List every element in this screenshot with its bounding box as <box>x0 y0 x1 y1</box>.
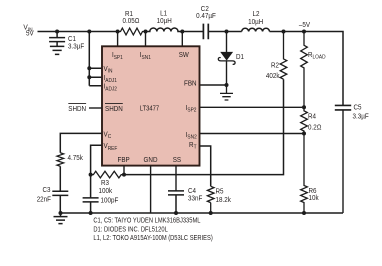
capacitor C2 <box>196 4 216 39</box>
wire VREF <box>89 145 102 176</box>
svg-text:22nF: 22nF <box>37 195 52 204</box>
svg-text:100k: 100k <box>99 186 113 195</box>
svg-text:R4: R4 <box>308 111 316 120</box>
svg-text:L1, L2: TOKO A915AY-100M (D53L: L1, L2: TOKO A915AY-100M (D53LC SERIES) <box>93 233 212 242</box>
resistor R5 <box>207 186 231 215</box>
capacitor C3 <box>37 166 69 213</box>
resistor R2 <box>266 30 287 81</box>
wire ISN2 <box>200 132 307 136</box>
wire output rail <box>270 32 344 106</box>
inductor L2 <box>242 9 270 32</box>
capacitor C4 <box>168 186 203 215</box>
svg-text:33nF: 33nF <box>188 193 203 202</box>
wire L1 to C2 <box>182 31 203 33</box>
svg-text:4.75k: 4.75k <box>68 153 84 162</box>
svg-text:10µH: 10µH <box>157 16 172 25</box>
wire C2 to L2 <box>208 31 241 33</box>
wire SW stub <box>181 32 183 47</box>
svg-text:GND: GND <box>144 155 158 164</box>
wire VC <box>60 133 102 152</box>
svg-text:C5: C5 <box>354 102 362 111</box>
wire ground rail <box>61 212 344 214</box>
ground at C1 <box>50 46 64 54</box>
wire RT <box>200 146 211 186</box>
IC U1 LT3477 <box>102 46 200 165</box>
svg-text:0.2Ω: 0.2Ω <box>308 123 322 132</box>
svg-text:LT3477: LT3477 <box>140 104 159 113</box>
resistor 4.75k compensation <box>57 153 83 167</box>
node VIN input <box>23 23 33 38</box>
svg-text:SHDN: SHDN <box>105 104 123 113</box>
capacitor 100pF <box>83 175 119 215</box>
svg-text:3.3µF: 3.3µF <box>68 41 85 50</box>
svg-text:C3: C3 <box>43 185 51 194</box>
resistor R6 <box>301 134 319 216</box>
svg-text:10µH: 10µH <box>248 17 263 26</box>
svg-text:D1: DIODES INC. DFL5120L: D1: DIODES INC. DFL5120L <box>93 224 167 233</box>
svg-text:3.3µF: 3.3µF <box>353 112 370 121</box>
svg-text:402k: 402k <box>266 71 280 80</box>
svg-text:10k: 10k <box>309 193 319 202</box>
resistor R3 <box>91 171 124 195</box>
svg-text:FBP: FBP <box>118 155 130 164</box>
svg-text:R2: R2 <box>271 61 279 70</box>
svg-text:R5: R5 <box>216 187 224 196</box>
inductor L1 <box>146 8 185 33</box>
wire feedback R2 to FBP node <box>124 79 284 174</box>
resistor RLOAD <box>301 30 326 108</box>
wire SS stub <box>175 166 177 191</box>
node SHDN label <box>68 104 86 113</box>
svg-text:100pF: 100pF <box>101 195 119 204</box>
svg-text:18.2k: 18.2k <box>216 195 232 204</box>
diode D1 <box>218 30 244 86</box>
svg-text:C1, C5: TAIYO YUDEN LMK316BJ33: C1, C5: TAIYO YUDEN LMK316BJ335ML <box>93 216 200 225</box>
svg-text:FBN: FBN <box>184 78 197 87</box>
svg-text:–5V: –5V <box>299 20 310 29</box>
svg-text:SW: SW <box>179 50 189 59</box>
wire GND stub <box>150 166 152 213</box>
svg-text:0.47µF: 0.47µF <box>196 11 216 20</box>
capacitor C5 <box>335 102 369 120</box>
note component list <box>93 216 212 243</box>
capacitor C1 <box>49 30 85 51</box>
wire right edge lower <box>342 110 344 213</box>
wire input rail <box>38 31 118 33</box>
ground at FBN/D1 node <box>220 85 233 100</box>
wire ISN1 stub <box>145 32 147 47</box>
svg-text:0.05Ω: 0.05Ω <box>123 16 140 25</box>
wire FBP stub <box>122 166 126 177</box>
svg-text:SS: SS <box>173 155 182 164</box>
wire VIN/IADJ feed <box>87 30 102 86</box>
ground at bottom rail <box>54 211 68 224</box>
svg-text:5V: 5V <box>26 29 34 38</box>
wire FBN <box>200 83 229 87</box>
resistor R1 <box>116 9 148 35</box>
wire SHDN stub <box>89 107 102 109</box>
wire ISP2 <box>200 105 307 109</box>
wire ISP1 stub <box>117 32 119 47</box>
svg-text:SHDN: SHDN <box>68 104 86 113</box>
svg-text:D1: D1 <box>236 52 244 61</box>
resistor R4 <box>301 107 322 133</box>
